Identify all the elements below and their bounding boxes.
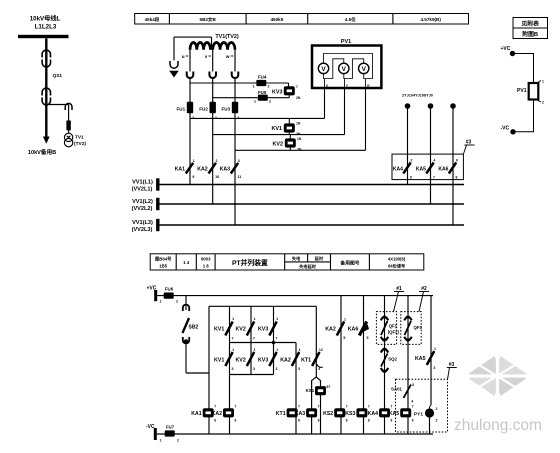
- svg-text:KA6: KA6: [438, 166, 448, 172]
- svg-text:2YJ104YJ108YJ0: 2YJ104YJ108YJ0: [402, 94, 433, 98]
- svg-text:1: 1: [254, 99, 256, 103]
- svg-text:TV1: TV1: [75, 135, 84, 141]
- svg-text:(QF2): (QF2): [388, 330, 400, 335]
- svg-text:见附表: 见附表: [521, 20, 539, 28]
- svg-text:FU1: FU1: [177, 106, 186, 111]
- svg-text:10kV母线L: 10kV母线L: [30, 15, 61, 23]
- svg-text:8: 8: [456, 176, 458, 180]
- svg-text:KV1: KV1: [272, 126, 283, 132]
- svg-text:KA5: KA5: [416, 166, 426, 172]
- svg-text:7: 7: [253, 337, 255, 341]
- svg-text:8: 8: [412, 419, 414, 423]
- svg-text:FU6: FU6: [165, 286, 174, 291]
- svg-text:(VV2L1): (VV2L1): [132, 187, 153, 193]
- svg-text:0003: 0003: [201, 257, 211, 262]
- svg-text:1: 1: [254, 317, 256, 321]
- svg-text:5: 5: [367, 336, 369, 340]
- svg-text:45k4段: 45k4段: [145, 16, 160, 23]
- svg-text:KA5: KA5: [389, 411, 399, 417]
- svg-text:KV1: KV1: [214, 358, 224, 364]
- svg-text:450k5: 450k5: [271, 17, 284, 22]
- svg-text:FU4: FU4: [258, 75, 267, 80]
- svg-text:1: 1: [344, 318, 346, 322]
- svg-text:1 8: 1 8: [203, 264, 210, 269]
- svg-text:10: 10: [215, 175, 219, 179]
- svg-text:KT1: KT1: [301, 358, 311, 364]
- svg-text:v: v: [346, 84, 348, 88]
- svg-text:V: V: [342, 66, 347, 73]
- svg-text:-VC: -VC: [501, 126, 510, 132]
- svg-text:KA6: KA6: [348, 327, 359, 333]
- svg-text:KA2: KA2: [197, 166, 207, 172]
- svg-text:7: 7: [318, 405, 320, 409]
- svg-text:7: 7: [368, 405, 370, 409]
- svg-text:KV2: KV2: [235, 358, 245, 364]
- svg-text:KA1: KA1: [175, 166, 185, 172]
- svg-text:SA01: SA01: [391, 387, 403, 392]
- svg-text:+VC: +VC: [501, 46, 511, 52]
- svg-text:V: V: [321, 66, 326, 73]
- svg-text:9: 9: [192, 175, 194, 179]
- svg-text:L1L2L3: L1L2L3: [35, 24, 57, 31]
- svg-text:7: 7: [346, 405, 348, 409]
- svg-text:8: 8: [235, 419, 237, 423]
- svg-text:失电: 失电: [292, 255, 301, 262]
- svg-text:3: 3: [253, 367, 255, 371]
- svg-text:2N: 2N: [296, 96, 301, 100]
- svg-text:PT并列装置: PT并列装置: [232, 258, 268, 267]
- svg-text:VV1(L3): VV1(L3): [132, 220, 153, 226]
- svg-text:KV3: KV3: [258, 327, 268, 333]
- svg-text:VV1(L1): VV1(L1): [132, 180, 153, 186]
- svg-text:u: u: [182, 54, 185, 59]
- svg-text:(TV2): (TV2): [74, 141, 86, 147]
- svg-text:KV1: KV1: [214, 327, 224, 333]
- svg-text:2: 2: [436, 419, 438, 423]
- svg-text:FU2: FU2: [199, 106, 208, 111]
- svg-text:7: 7: [276, 337, 278, 341]
- svg-text:2: 2: [269, 99, 271, 103]
- svg-text:SQ2: SQ2: [388, 357, 397, 362]
- svg-text:4.5位: 4.5位: [345, 16, 356, 23]
- svg-text:1: 1: [160, 300, 162, 304]
- svg-text:3: 3: [238, 159, 240, 163]
- svg-text:5: 5: [343, 336, 345, 340]
- svg-text:延时: 延时: [314, 255, 324, 262]
- svg-text:6: 6: [410, 176, 412, 180]
- svg-text:TV1(TV2): TV1(TV2): [215, 34, 239, 40]
- svg-text:KV2: KV2: [235, 327, 245, 333]
- svg-text:QS1: QS1: [53, 73, 63, 79]
- svg-text:KS2: KS2: [323, 411, 333, 417]
- svg-text:V: V: [362, 66, 367, 73]
- svg-text:KT1: KT1: [276, 411, 286, 417]
- svg-text:8: 8: [298, 419, 300, 423]
- svg-text:附图B: 附图B: [522, 30, 538, 38]
- svg-text:7: 7: [433, 176, 435, 180]
- svg-text:12: 12: [319, 348, 323, 352]
- svg-text:KS1: KS1: [306, 388, 315, 393]
- svg-text:FU3: FU3: [222, 106, 231, 111]
- svg-text:6: 6: [456, 159, 458, 163]
- svg-text:8: 8: [368, 419, 370, 423]
- svg-text:u: u: [326, 84, 328, 88]
- svg-text:KA2: KA2: [212, 411, 222, 417]
- svg-text:1: 1: [232, 317, 234, 321]
- svg-text:KV3: KV3: [258, 358, 268, 364]
- svg-text:10kV备用B: 10kV备用B: [28, 148, 56, 156]
- svg-text:2: 2: [216, 159, 218, 163]
- svg-text:8: 8: [391, 419, 393, 423]
- svg-text:5B2女B: 5B2女B: [200, 16, 217, 23]
- svg-text:7: 7: [214, 405, 216, 409]
- svg-text:1N: 1N: [296, 122, 301, 126]
- svg-text:7: 7: [298, 405, 300, 409]
- svg-text:3: 3: [298, 367, 300, 371]
- svg-text:7: 7: [412, 405, 414, 409]
- svg-text:2: 2: [177, 439, 179, 443]
- svg-text:3: 3: [232, 367, 234, 371]
- svg-text:KV2: KV2: [273, 142, 284, 148]
- svg-text:KA4: KA4: [368, 411, 378, 417]
- svg-text:KV3: KV3: [272, 89, 283, 95]
- svg-text:PV1: PV1: [517, 88, 527, 94]
- svg-text:64份课号: 64份课号: [388, 263, 405, 270]
- svg-text:FU5: FU5: [258, 90, 267, 95]
- svg-text:2: 2: [176, 300, 178, 304]
- svg-text:11: 11: [237, 175, 241, 179]
- svg-text:w: w: [366, 84, 370, 88]
- svg-text:7: 7: [235, 405, 237, 409]
- svg-text:1: 1: [434, 347, 436, 351]
- svg-text:1: 1: [232, 348, 234, 352]
- svg-text:v: v: [205, 54, 208, 59]
- svg-text:zhulong.com: zhulong.com: [454, 417, 542, 434]
- svg-text:1: 1: [160, 439, 162, 443]
- svg-text:1N: 1N: [297, 137, 302, 141]
- svg-text:2N: 2N: [297, 148, 302, 152]
- svg-text:67: 67: [327, 385, 331, 389]
- svg-text:2N: 2N: [296, 132, 301, 136]
- svg-text:1: 1: [193, 159, 195, 163]
- svg-text:7: 7: [232, 337, 234, 341]
- svg-text:KA4: KA4: [393, 166, 403, 172]
- svg-text:8: 8: [214, 419, 216, 423]
- svg-text:4: 4: [411, 400, 413, 404]
- svg-text:PY1: PY1: [414, 411, 423, 417]
- svg-text:2: 2: [436, 407, 438, 411]
- svg-text:1: 1: [276, 348, 278, 352]
- svg-text:1: 1: [542, 80, 544, 84]
- svg-text:备用图号: 备用图号: [339, 259, 359, 266]
- svg-text:图B64号: 图B64号: [155, 256, 172, 263]
- svg-text:KA1: KA1: [191, 411, 201, 417]
- svg-text:1 4: 1 4: [183, 260, 190, 265]
- svg-text:8: 8: [346, 419, 348, 423]
- svg-text:-VC: -VC: [146, 424, 155, 430]
- svg-text:2: 2: [268, 85, 270, 89]
- svg-text:1: 1: [254, 348, 256, 352]
- svg-text:w: w: [225, 54, 230, 59]
- svg-text:VV1(L2): VV1(L2): [132, 199, 153, 205]
- svg-text:1: 1: [299, 348, 301, 352]
- svg-text:SB2: SB2: [189, 325, 199, 331]
- svg-text:7: 7: [391, 405, 393, 409]
- svg-text:2: 2: [542, 101, 544, 105]
- svg-text:KA2: KA2: [325, 327, 336, 333]
- svg-text:(VV2L2): (VV2L2): [132, 206, 153, 212]
- svg-text:KA3: KA3: [220, 166, 230, 172]
- svg-text:3: 3: [412, 383, 414, 387]
- svg-text:4X190(6): 4X190(6): [388, 257, 406, 262]
- svg-text:(VV2L3): (VV2L3): [132, 227, 153, 233]
- svg-text:4: 4: [434, 159, 436, 163]
- svg-text:1B5: 1B5: [159, 264, 167, 269]
- svg-text:KS3: KS3: [345, 411, 355, 417]
- svg-text:KA2: KA2: [280, 358, 291, 364]
- svg-text:8: 8: [318, 419, 320, 423]
- svg-text:KA5: KA5: [415, 356, 426, 362]
- svg-text:失电延时: 失电延时: [299, 263, 317, 270]
- svg-text:4.57k9(B): 4.57k9(B): [420, 17, 441, 22]
- svg-text:FU7: FU7: [166, 425, 175, 430]
- svg-text:7: 7: [296, 85, 298, 89]
- svg-text:1: 1: [276, 317, 278, 321]
- svg-text:KA3: KA3: [295, 411, 305, 417]
- svg-text:3: 3: [276, 367, 278, 371]
- svg-text:3: 3: [433, 366, 435, 370]
- svg-text:2: 2: [411, 159, 413, 163]
- svg-text:1: 1: [253, 85, 255, 89]
